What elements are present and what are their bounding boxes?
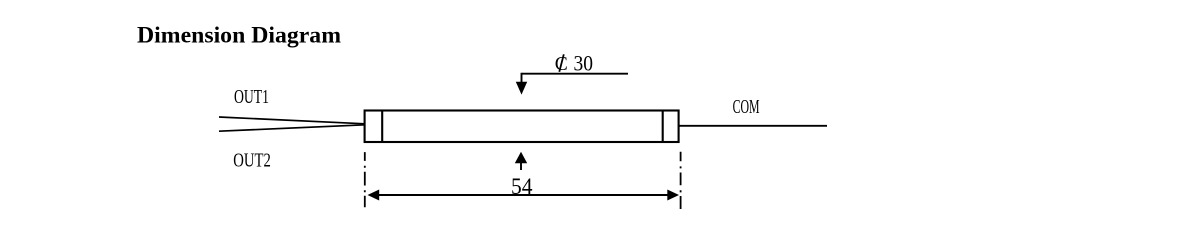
extension line right (dash-dot): [680, 152, 682, 209]
svg-text:COM: COM: [733, 97, 760, 118]
dimension line 54: [372, 194, 674, 196]
svg-text:30: 30: [574, 50, 594, 75]
diameter up arrowhead below tube: [515, 152, 527, 164]
svg-text:OUT2: OUT2: [233, 151, 270, 172]
dimension label diameter symbol (slash part): [559, 54, 564, 72]
diameter up arrow stem: [520, 162, 522, 170]
diameter leader down arrowhead: [516, 82, 527, 95]
fiber COM wire: [679, 125, 827, 127]
diameter leader horizontal line: [522, 73, 629, 75]
extension line left (dash-dot): [364, 152, 366, 207]
svg-text:54: 54: [511, 174, 533, 200]
svg-text:Dimension Diagram: Dimension Diagram: [137, 23, 341, 48]
fiber OUT2 wire: [219, 125, 365, 131]
tube body: [365, 111, 679, 143]
fiber OUT1 wire: [219, 117, 365, 124]
tube left end cap line: [381, 111, 383, 143]
dimension left arrowhead: [368, 190, 380, 201]
svg-text:OUT1: OUT1: [234, 87, 269, 108]
dimension right arrowhead: [667, 190, 679, 201]
diameter leader vertical stem: [521, 73, 523, 83]
tube right end cap line: [662, 111, 664, 143]
